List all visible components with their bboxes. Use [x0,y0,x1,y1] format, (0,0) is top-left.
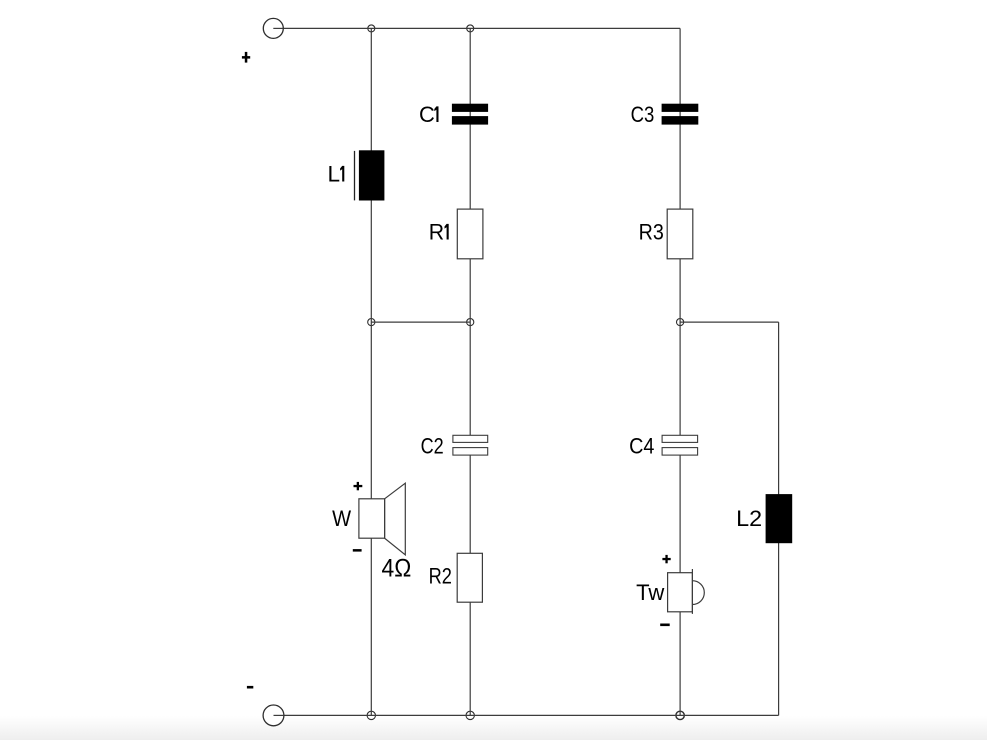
label R1 [429,220,449,245]
capacitor C3 [662,104,699,125]
wire bottom horizontal from - terminal to L2 column [274,714,779,716]
wire middle horizontal right to L2 column [680,321,779,323]
woofer W (speaker symbol) [359,483,405,555]
label + of positive terminal [242,52,250,63]
label - of woofer [353,549,362,552]
wire vertical C3/R3/C4/tweeter column [679,28,681,715]
node junction middle at C3 column [677,319,684,326]
label - of tweeter [660,624,670,627]
svg-text:L2: L2 [736,506,762,531]
svg-text:C4: C4 [629,434,654,459]
capacitor C4 [662,435,698,455]
terminal + (input positive) [263,18,283,38]
terminal - (input negative) [263,705,284,726]
svg-text:L: L [328,162,341,187]
node junction middle at L1 column [368,319,375,326]
wire top horizontal from + terminal to C3 column [273,27,680,29]
resistor R1 [457,209,483,259]
svg-text:R3: R3 [639,220,664,245]
svg-text:C3: C3 [631,102,655,127]
wire vertical L1/woofer column [370,28,372,715]
label C1 [419,102,439,127]
node junction top at L1 column [368,25,375,32]
label - of negative terminal [247,686,253,689]
wire middle horizontal left (node to node) [371,321,470,323]
wire vertical L2 column [778,322,780,715]
svg-text:4Ω: 4Ω [382,555,412,583]
svg-text:C: C [419,102,435,127]
node junction bottom at L1 column [367,711,375,719]
svg-text:C2: C2 [421,434,444,459]
svg-text:R2: R2 [429,564,452,589]
svg-text:R: R [429,220,444,245]
resistor R3 [667,209,693,259]
inductor L2 [766,494,793,543]
node junction top at C1 column [467,25,474,32]
capacitor C2 [453,435,488,455]
resistor R2 [457,553,482,602]
wire vertical C1/R1/C2/R2 column [469,28,471,715]
capacitor C1 [452,104,488,125]
node junction bottom at C3 column [676,711,684,719]
label + of woofer [354,482,363,490]
node junction middle at C1 column [467,319,474,326]
inductor L1 [355,150,385,200]
svg-text:Tw: Tw [636,580,664,605]
label L1 [328,162,345,187]
label + of tweeter [662,555,670,563]
tweeter Tw (dome speaker symbol) [668,569,705,614]
node junction bottom at C1 column [466,711,474,719]
svg-text:W: W [332,506,351,531]
